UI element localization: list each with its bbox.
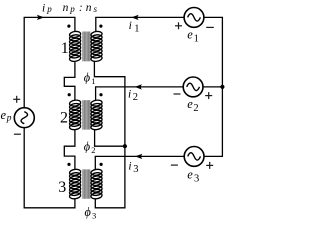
- label e_p: [1, 108, 12, 124]
- label e_1: [187, 28, 199, 45]
- svg-text:e: e: [1, 108, 7, 122]
- polarity dot primary 1: [67, 25, 70, 28]
- svg-text:i: i: [128, 88, 131, 100]
- transformer core 2: [82, 100, 90, 129]
- svg-text:s: s: [94, 4, 98, 14]
- arrow i_2 current direction: [135, 84, 142, 89]
- polarity dot primary 3: [67, 163, 70, 166]
- inductor secondary winding 2: [91, 99, 103, 130]
- source e_2 AC circle: [183, 77, 203, 97]
- svg-text:i: i: [128, 160, 131, 172]
- label minus of e_2: [174, 93, 181, 95]
- flux label phi_3: [85, 205, 97, 221]
- label i_2: [128, 88, 138, 103]
- source e_1 sine symbol: [188, 14, 201, 21]
- inductor primary winding 3: [69, 169, 81, 200]
- svg-text:ϕ: ϕ: [84, 70, 91, 84]
- svg-text:p: p: [46, 4, 52, 14]
- inductor primary winding 2: [69, 99, 81, 130]
- label + of e_2: [205, 92, 212, 99]
- label i_1: [129, 20, 140, 35]
- svg-text:e: e: [187, 28, 193, 42]
- wire source e_1 to right rail down to e_3: [204, 17, 223, 156]
- flux label phi_2: [84, 140, 96, 156]
- label i_p: [42, 2, 52, 14]
- wire secondary 3 top to source e_3: [95, 156, 184, 169]
- svg-text:2: 2: [133, 92, 138, 103]
- svg-text:3: 3: [133, 164, 138, 175]
- label + of e_1: [175, 22, 182, 29]
- junction dot common node secondary bottoms: [123, 144, 127, 148]
- arrow i_1 current direction: [131, 15, 138, 20]
- wire primary series zigzag transformer 2 to 3: [64, 129, 75, 169]
- label + of e_p: [13, 96, 20, 103]
- label minus of e_p: [14, 133, 21, 135]
- svg-text:e: e: [187, 97, 193, 111]
- svg-text:i: i: [42, 2, 45, 14]
- svg-text:n: n: [63, 2, 69, 14]
- svg-text:p: p: [69, 4, 75, 14]
- svg-text:1: 1: [61, 40, 69, 57]
- wire bottom-left from e_p to primary 3: [24, 128, 75, 207]
- wire top-left rail from e_p to primary 1: [24, 17, 75, 107]
- label minus of e_3: [171, 164, 178, 166]
- svg-text:1: 1: [134, 24, 139, 35]
- wire secondary 2 bottom to common node: [95, 129, 125, 146]
- svg-text:p: p: [6, 114, 12, 124]
- label e_2: [187, 97, 198, 114]
- label e_3: [187, 167, 199, 184]
- svg-text::: :: [79, 2, 83, 14]
- flux label phi_1: [84, 70, 96, 86]
- wire primary series zigzag transformer 1 to 2: [64, 61, 75, 101]
- svg-text:ϕ: ϕ: [85, 205, 92, 219]
- source e_3 sine symbol: [188, 153, 201, 160]
- arrow i_3 current direction: [135, 154, 142, 159]
- inductor secondary winding 3: [91, 169, 103, 200]
- svg-text:i: i: [129, 20, 132, 32]
- polarity dot secondary 1: [99, 25, 102, 28]
- svg-text:1: 1: [194, 34, 199, 45]
- svg-text:3: 3: [92, 211, 96, 221]
- transformer core 1: [82, 32, 90, 62]
- source e_2 sine symbol: [187, 83, 200, 90]
- polarity dot primary 2: [68, 93, 71, 96]
- wire secondary 1 top to source e_1: [96, 17, 184, 31]
- source e_p AC circle: [14, 108, 34, 128]
- polarity dot secondary 3: [100, 163, 103, 166]
- svg-text:3: 3: [194, 173, 199, 184]
- wire secondary 1 bottom jog to common node rail: [94, 61, 125, 208]
- source e_p sine symbol: [21, 112, 28, 124]
- label n_p : n_s turns ratio: [63, 2, 98, 14]
- source e_1 AC circle: [184, 8, 204, 28]
- transformer core 3: [82, 169, 90, 198]
- svg-text:2: 2: [60, 110, 68, 127]
- label i_3: [128, 160, 138, 175]
- svg-text:ϕ: ϕ: [84, 140, 91, 154]
- svg-text:3: 3: [58, 179, 66, 196]
- label minus of e_1: [206, 26, 214, 28]
- inductor primary winding 1: [69, 31, 81, 62]
- inductor secondary winding 1: [91, 31, 103, 62]
- arrow i_p current direction: [37, 15, 44, 20]
- svg-text:e: e: [187, 167, 193, 181]
- wire secondary 2 top to source e_2: [96, 87, 184, 101]
- polarity dot secondary 2: [99, 93, 102, 96]
- source e_3 AC circle: [184, 147, 204, 167]
- junction dot e_2 right rail: [220, 85, 224, 89]
- svg-text:n: n: [86, 2, 92, 14]
- svg-text:2: 2: [193, 103, 198, 114]
- wire source e_2 to right rail: [203, 86, 222, 88]
- label + of e_3: [206, 162, 213, 169]
